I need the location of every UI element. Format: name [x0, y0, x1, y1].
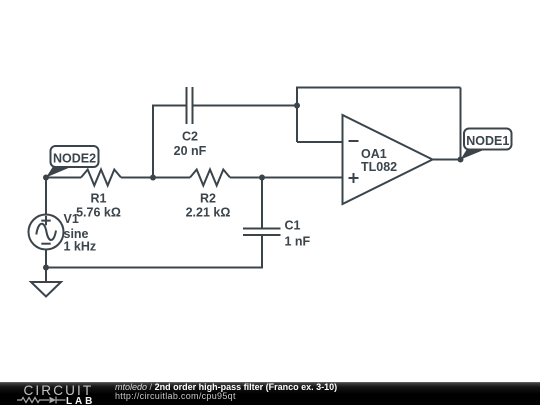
wire: op-amp output to output node	[433, 159, 461, 161]
wire: C2 right plate to node D	[193, 105, 298, 107]
wire: feedback right vertical down to output node	[460, 88, 462, 160]
svg-text:C1: C1	[285, 219, 301, 233]
wire: feedback top horizontal	[296, 87, 461, 89]
svg-text:R2: R2	[200, 192, 216, 206]
svg-text:NODE2: NODE2	[53, 152, 96, 166]
wire: node C to op-amp non-inverting input	[262, 177, 343, 179]
footer credit text	[115, 383, 337, 402]
voltage source V1	[29, 215, 64, 250]
wire: bottom node to ground stem	[45, 268, 47, 283]
svg-text:V1: V1	[64, 212, 79, 226]
node flag NODE2	[46, 146, 99, 178]
CircuitLab logo	[0, 382, 110, 405]
svg-text:TL082: TL082	[361, 160, 397, 174]
svg-text:OA1: OA1	[361, 147, 387, 161]
wire: node A to R1 left lead	[46, 177, 81, 179]
output node junction dot	[458, 157, 464, 163]
svg-text:2.21 kΩ: 2.21 kΩ	[186, 206, 231, 220]
wire: node B up to C2 branch corner	[153, 106, 187, 178]
node C junction dot	[259, 175, 265, 181]
svg-text:NODE1: NODE1	[466, 134, 509, 148]
bottom node junction dot	[43, 265, 49, 271]
svg-text:1 kHz: 1 kHz	[64, 240, 97, 254]
resistor R1	[81, 170, 121, 186]
svg-text:5.76 kΩ: 5.76 kΩ	[76, 206, 121, 220]
wire: feedback left vertical through node D	[296, 88, 298, 143]
svg-text:R1: R1	[91, 192, 107, 206]
node B junction dot	[150, 175, 156, 181]
svg-text:20 nF: 20 nF	[174, 144, 207, 158]
svg-text:C2: C2	[182, 130, 198, 144]
wire: R1 right lead to node B	[121, 177, 153, 179]
capacitor C2	[187, 87, 193, 124]
ground	[31, 282, 61, 297]
resistor R2	[190, 170, 230, 186]
node D junction dot	[294, 103, 300, 109]
node flag NODE1	[461, 129, 512, 160]
footer bar	[0, 382, 540, 405]
wire: C1 bottom plate down and left along bottom rail	[46, 235, 262, 268]
wire: V1 bottom terminal to bottom node	[45, 250, 47, 268]
wire: R2 right lead to node C	[230, 177, 262, 179]
op-amp OA1 TL082	[343, 115, 433, 204]
svg-text:1 nF: 1 nF	[285, 235, 311, 249]
wire: node A down to V1 top terminal	[45, 178, 47, 215]
wire: inverting input stub	[297, 141, 343, 143]
node A junction dot	[43, 175, 49, 181]
capacitor C1	[243, 229, 281, 236]
svg-text:LAB: LAB	[66, 396, 95, 405]
wire: node C down to C1 top plate	[261, 178, 263, 229]
wire: node B to R2 left lead	[153, 177, 190, 179]
